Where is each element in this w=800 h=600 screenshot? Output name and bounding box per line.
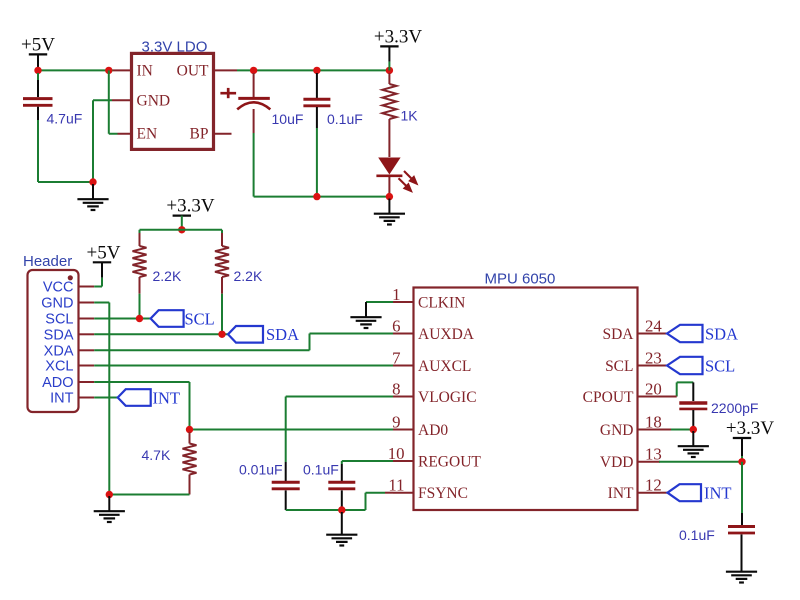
pin number 7 — [392, 348, 400, 367]
svg-text:13: 13 — [645, 445, 662, 464]
pin 10 stub — [393, 460, 414, 462]
svg-text:7: 7 — [392, 348, 400, 367]
wire CLKIN to ground — [366, 301, 393, 303]
svg-text:10: 10 — [388, 444, 405, 463]
pin number 6 — [392, 316, 400, 335]
pin 23 stub — [638, 365, 661, 367]
net label SDA — [266, 325, 299, 344]
title 3.3V LDO — [142, 39, 208, 56]
title Header — [23, 253, 72, 270]
svg-text:20: 20 — [645, 379, 662, 398]
pin label FSYNC — [418, 485, 468, 502]
wire REGOUT to C7 — [342, 461, 393, 481]
wire pullup tee — [140, 230, 223, 234]
svg-text:18: 18 — [645, 412, 662, 431]
svg-text:Header: Header — [23, 253, 72, 270]
svg-text:IN: IN — [137, 63, 153, 80]
ground CLKIN — [350, 302, 381, 328]
wire INT row — [94, 397, 118, 399]
pin number 23 — [645, 348, 662, 367]
pin label VCC — [43, 280, 74, 296]
resistor R2 2.2K — [133, 233, 147, 294]
wire GND pin to C4 — [659, 429, 693, 431]
value label 10uF — [272, 111, 304, 127]
power +3.3V mid — [166, 196, 214, 230]
pin number 20 — [645, 379, 662, 398]
value label 2200pF — [711, 400, 758, 416]
wire SCL row — [94, 318, 150, 320]
pin number 8 — [392, 379, 400, 398]
svg-text:2200pF: 2200pF — [711, 400, 758, 416]
junction +5V/C1 — [34, 67, 41, 74]
pin label EN — [137, 126, 158, 143]
svg-text:SCL: SCL — [605, 358, 633, 375]
net flag INT right — [660, 484, 701, 501]
pin label REGOUT — [418, 453, 481, 470]
junction ground node — [89, 178, 96, 185]
wire XCL to AUXCL — [94, 365, 393, 367]
svg-text:12: 12 — [645, 476, 662, 495]
ground C4 — [678, 431, 709, 457]
svg-text:+3.3V: +3.3V — [374, 26, 422, 47]
capacitor C3 0.1uF — [303, 73, 330, 128]
wire GND down — [94, 303, 109, 495]
svg-text:EN: EN — [137, 126, 158, 143]
net flag SCL right — [660, 357, 703, 374]
svg-text:0.1uF: 0.1uF — [679, 527, 715, 543]
wire C2 to rail — [253, 133, 255, 197]
svg-text:AUXDA: AUXDA — [418, 326, 475, 343]
svg-text:VCC: VCC — [43, 280, 74, 296]
pin label INT right — [608, 485, 634, 502]
svg-text:3.3V LDO: 3.3V LDO — [142, 39, 208, 56]
wire IN node to EN — [108, 70, 110, 133]
pin SDA stub — [79, 333, 95, 335]
svg-text:SDA: SDA — [44, 328, 74, 344]
wire ADO to AD0 — [94, 382, 393, 430]
pin label GND right — [600, 422, 634, 439]
pin number 12 — [645, 476, 662, 495]
wire +5V to LDO IN — [38, 69, 113, 71]
wire FSYNC to ground — [366, 493, 394, 510]
junction OUT/C2 — [250, 67, 257, 74]
svg-text:1K: 1K — [401, 108, 419, 124]
pin 7 stub — [393, 365, 414, 367]
svg-text:INT: INT — [50, 391, 74, 407]
resistor R4 4.7K — [183, 432, 197, 495]
capacitor C7 0.1uF — [328, 482, 355, 510]
title MPU 6050 — [485, 271, 556, 288]
wire R2 to SCL — [139, 294, 141, 319]
pin1 marker dot — [68, 275, 73, 280]
pin GND stub — [112, 99, 132, 101]
pin SCL stub — [79, 318, 95, 320]
pin number 11 — [388, 476, 404, 495]
net label INT — [153, 388, 181, 407]
pin XCL stub — [79, 365, 95, 367]
svg-text:XCL: XCL — [45, 359, 73, 375]
ground C5 — [726, 557, 757, 583]
junction header gnd — [106, 491, 113, 498]
LED D1 — [376, 158, 416, 197]
pin number 24 — [645, 316, 662, 335]
IC U2 MPU box — [414, 288, 638, 511]
pin 20 stub — [638, 396, 661, 398]
svg-text:GND: GND — [41, 296, 73, 312]
pin number 10 — [388, 444, 405, 463]
svg-text:SDA: SDA — [705, 324, 738, 343]
svg-text:REGOUT: REGOUT — [418, 453, 481, 470]
pin label VDD right — [600, 454, 634, 471]
value label 2.2K left — [153, 268, 182, 284]
pin 12 stub — [638, 492, 661, 494]
pin label GND — [41, 296, 73, 312]
pin label CLKIN — [418, 294, 465, 311]
pin ADO stub — [79, 381, 95, 383]
pin 18 stub — [638, 429, 661, 431]
pin VCC stub — [79, 286, 95, 288]
capacitor C2 10uF polarized — [220, 73, 270, 133]
pin INT stub — [79, 397, 95, 399]
pin XDA stub — [79, 349, 95, 351]
svg-text:XDA: XDA — [44, 344, 74, 360]
svg-text:SCL: SCL — [705, 356, 735, 375]
value label 4.7uF — [47, 111, 83, 127]
svg-text:FSYNC: FSYNC — [418, 485, 468, 502]
svg-text:8: 8 — [392, 379, 400, 398]
junction rail C3 — [313, 193, 320, 200]
svg-text:+5V: +5V — [87, 242, 121, 263]
svg-text:0.1uF: 0.1uF — [327, 111, 363, 127]
resistor R3 2.2K — [215, 233, 229, 294]
svg-text:VLOGIC: VLOGIC — [418, 389, 477, 406]
svg-text:INT: INT — [153, 388, 181, 407]
ground LDO section — [77, 184, 108, 210]
svg-text:SCL: SCL — [185, 309, 215, 328]
pin label VLOGIC — [418, 389, 477, 406]
pin label AUXDA — [418, 326, 475, 343]
junction SDA — [218, 331, 225, 338]
svg-text:0.1uF: 0.1uF — [303, 462, 339, 478]
pin BP stub — [214, 133, 232, 135]
value label 0.1uF right — [679, 527, 715, 543]
junction VDD — [738, 458, 745, 465]
wire VDD to C5 — [741, 462, 743, 525]
pin label ADO — [42, 375, 73, 391]
pin label SCL right — [605, 358, 633, 375]
pin label OUT — [177, 63, 209, 80]
junction IN/EN node — [105, 67, 112, 74]
pin label AUXCL — [418, 358, 471, 375]
power +5V header — [87, 242, 121, 286]
power +5V — [21, 34, 55, 70]
svg-text:4.7K: 4.7K — [142, 447, 171, 463]
svg-text:AD0: AD0 — [418, 422, 448, 439]
capacitor C1 4.7uF — [23, 73, 53, 120]
value label 1K — [401, 108, 419, 124]
net flag INT — [118, 389, 151, 406]
junction C4 gnd — [690, 426, 697, 433]
junction C3 top — [313, 67, 320, 74]
svg-text:BP: BP — [190, 126, 209, 143]
svg-text:11: 11 — [388, 476, 404, 495]
pin EN stub — [109, 133, 132, 135]
svg-text:10uF: 10uF — [272, 111, 304, 127]
pin label SDA right — [602, 326, 634, 343]
junction pullup top — [178, 226, 185, 233]
junction R1 top — [386, 67, 393, 74]
pin label SDA — [44, 328, 74, 344]
pin number 1 — [392, 285, 400, 304]
value label 0.1uF regout — [303, 462, 339, 478]
capacitor C4 2200pF — [679, 403, 707, 430]
pin 6 stub — [393, 333, 414, 335]
svg-text:OUT: OUT — [177, 63, 209, 80]
pin label SCL — [45, 312, 73, 328]
pin OUT stub — [214, 69, 238, 71]
ground LED section — [374, 199, 405, 225]
svg-text:INT: INT — [608, 485, 634, 502]
wire C1 to ground rail — [38, 120, 93, 182]
junction AD0/R4 — [186, 426, 193, 433]
svg-text:GND: GND — [137, 92, 171, 109]
wire cap ground rail — [286, 509, 366, 511]
pin 9 stub — [393, 429, 414, 431]
wire OUT to +3.3V rail — [237, 69, 389, 71]
pin number 9 — [392, 412, 400, 431]
net label SCL — [185, 309, 215, 328]
net flag SDA right — [660, 325, 703, 342]
svg-text:+3.3V: +3.3V — [726, 418, 774, 439]
pin number 18 — [645, 412, 662, 431]
wire R3 to SDA — [221, 294, 223, 335]
net flag SCL — [151, 310, 184, 327]
svg-text:GND: GND — [600, 422, 634, 439]
svg-text:9: 9 — [392, 412, 400, 431]
svg-text:1: 1 — [392, 285, 400, 304]
pin label IN — [137, 63, 153, 80]
wire VDD row — [659, 461, 742, 463]
pin 1 stub — [393, 301, 414, 303]
resistor R1 1K — [382, 73, 396, 157]
pin label XDA — [44, 344, 74, 360]
svg-text:+5V: +5V — [21, 34, 55, 55]
capacitor C5 0.1uF — [728, 527, 755, 572]
value label 4.7K — [142, 447, 171, 463]
svg-text:ADO: ADO — [42, 375, 73, 391]
pin label CPOUT right — [583, 389, 634, 406]
svg-text:MPU 6050: MPU 6050 — [485, 271, 556, 288]
svg-text:2.2K: 2.2K — [153, 268, 182, 284]
wire C3 to rail — [316, 128, 318, 197]
pin label AD0 — [418, 422, 448, 439]
wire SDA row — [94, 333, 228, 335]
svg-text:SCL: SCL — [45, 312, 73, 328]
svg-text:24: 24 — [645, 316, 662, 335]
value label 0.1uF — [327, 111, 363, 127]
wire CPOUT to C4 — [660, 382, 693, 401]
svg-text:VDD: VDD — [600, 454, 634, 471]
net label SDA right — [705, 324, 738, 343]
wire VLOGIC to C6 — [286, 397, 393, 482]
wire LDO GND pin down — [93, 100, 112, 182]
ground regout caps — [326, 512, 357, 546]
wire LED ground rail — [254, 196, 390, 198]
wire XDA to AUXDA — [94, 334, 393, 351]
pin 24 stub — [638, 333, 661, 335]
net label SCL right — [705, 356, 735, 375]
net label INT right — [704, 484, 732, 503]
junction SCL — [136, 315, 143, 322]
svg-text:CPOUT: CPOUT — [583, 389, 634, 406]
pin label XCL — [45, 359, 73, 375]
svg-text:4.7uF: 4.7uF — [47, 111, 83, 127]
power +3.3V top — [374, 26, 422, 70]
pin 13 stub — [638, 461, 661, 463]
connector J1 Header box — [28, 270, 79, 412]
net flag SDA — [228, 326, 263, 343]
svg-text:AUXCL: AUXCL — [418, 358, 471, 375]
pin number 13 — [645, 445, 662, 464]
power +3.3V right — [726, 418, 774, 462]
svg-text:6: 6 — [392, 316, 400, 335]
pin 8 stub — [393, 396, 414, 398]
pin label GND — [137, 92, 171, 109]
svg-text:SDA: SDA — [602, 326, 634, 343]
junction rail LED — [386, 193, 393, 200]
capacitor C6 0.01uF — [272, 482, 300, 510]
svg-text:0.01uF: 0.01uF — [239, 462, 283, 478]
svg-text:23: 23 — [645, 348, 662, 367]
pin IN stub — [113, 69, 132, 71]
ground header — [94, 496, 125, 522]
svg-text:INT: INT — [704, 484, 732, 503]
svg-text:2.2K: 2.2K — [234, 268, 263, 284]
value label 2.2K right — [234, 268, 263, 284]
svg-text:CLKIN: CLKIN — [418, 294, 465, 311]
value label 0.01uF — [239, 462, 283, 478]
pin label BP — [190, 126, 209, 143]
IC U1 3.3V LDO box — [132, 53, 214, 149]
wire R4 to ground — [109, 494, 189, 496]
pin GND stub — [79, 302, 95, 304]
pin label INT — [50, 391, 74, 407]
svg-text:+3.3V: +3.3V — [166, 196, 214, 217]
pin 11 stub — [393, 492, 414, 494]
junction caps gnd — [338, 506, 345, 513]
svg-text:SDA: SDA — [266, 325, 299, 344]
